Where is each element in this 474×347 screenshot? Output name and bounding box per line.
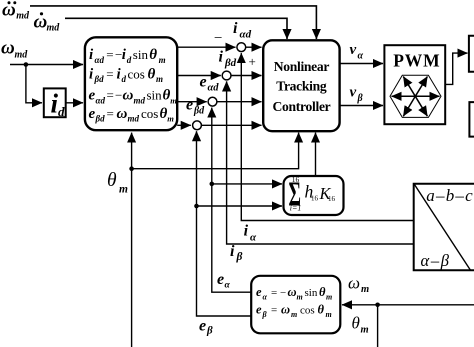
svg-text:β: β	[262, 310, 268, 319]
svg-text:θ: θ	[148, 66, 156, 82]
label i_ad above junction 1	[233, 20, 252, 40]
svg-text:=: =	[106, 66, 113, 81]
svg-text:βd: βd	[95, 114, 106, 124]
label theta_m bottom	[352, 313, 369, 335]
node junction omega-md	[24, 62, 29, 67]
svg-text:θ: θ	[163, 88, 171, 104]
node junction theta_m	[129, 166, 134, 171]
svg-text:d: d	[58, 104, 65, 119]
wire theta_m to controller bottom	[132, 133, 299, 169]
svg-text:v: v	[350, 42, 357, 58]
block right-top (cut)	[469, 36, 474, 72]
summing junction 3	[208, 97, 217, 106]
eq e_beta = omega_m cos theta_m	[256, 303, 332, 319]
svg-text:=: =	[271, 305, 277, 317]
svg-text:m: m	[297, 292, 303, 301]
svg-text:ω: ω	[123, 88, 134, 104]
svg-text:ω: ω	[117, 106, 128, 122]
block PWM	[384, 45, 445, 124]
wire theta_m bottom vertical	[377, 305, 379, 347]
summing junction 4	[193, 121, 202, 130]
svg-text:v: v	[350, 85, 357, 101]
svg-text:ω: ω	[288, 285, 297, 299]
eq row1 i_ad = -i_d sin theta_m	[89, 47, 166, 65]
svg-text:sin: sin	[133, 47, 149, 62]
svg-text:e: e	[217, 271, 224, 288]
node junction e_alpha tap	[210, 182, 215, 187]
svg-text:=: =	[106, 47, 113, 62]
svg-text:m: m	[170, 95, 177, 105]
svg-text:e: e	[186, 97, 193, 114]
svg-text:= −: = −	[271, 287, 286, 299]
label i_alpha	[244, 223, 257, 244]
label omega_m	[348, 274, 369, 296]
wire row4 to summing junction 4	[177, 124, 191, 126]
label v_beta	[350, 85, 364, 105]
svg-text:α: α	[250, 231, 257, 243]
svg-text:m: m	[156, 74, 163, 84]
wire row2 to summing junction 2	[177, 75, 221, 77]
svg-text:βd: βd	[193, 106, 205, 117]
svg-text:m: m	[361, 324, 369, 335]
wire row1 to summing junction 1	[177, 46, 235, 48]
svg-text:16: 16	[311, 195, 319, 203]
node junction e_beta tap	[194, 204, 199, 209]
svg-text:e: e	[256, 285, 262, 299]
svg-text:Controller: Controller	[273, 99, 331, 114]
svg-text:i: i	[219, 49, 224, 66]
svg-text:e: e	[200, 74, 207, 91]
svg-text:β: β	[206, 324, 213, 336]
svg-text:i: i	[233, 20, 238, 37]
wire sum block output to controller bottom	[315, 133, 317, 176]
svg-text:αd: αd	[95, 55, 105, 65]
svg-text:Nonlinear: Nonlinear	[274, 59, 330, 74]
svg-text:d: d	[122, 74, 127, 84]
svg-text:i=1: i=1	[290, 204, 302, 213]
wire junction2 to controller	[231, 75, 262, 77]
svg-text:e: e	[89, 106, 96, 122]
hexagon space vector	[390, 75, 441, 117]
wire junction4 to controller	[201, 124, 261, 126]
svg-text:θ: θ	[319, 285, 326, 299]
eq e_alpha = -omega_m sin theta_m	[256, 285, 332, 301]
svg-text:d: d	[127, 55, 132, 65]
wire omega-md into equation block	[10, 64, 83, 66]
svg-text:θ: θ	[160, 106, 168, 122]
wire junction1 to controller	[246, 46, 262, 48]
svg-text:−: −	[214, 31, 222, 47]
svg-text:ω: ω	[1, 38, 15, 59]
wire omega-d-md to controller top	[65, 18, 287, 39]
diagonal	[414, 184, 470, 270]
label e_alpha	[217, 271, 231, 290]
svg-text:α–β: α–β	[421, 251, 451, 270]
svg-text:i: i	[89, 47, 94, 63]
svg-text:m: m	[119, 184, 128, 196]
wire feedback e_alpha vertical to junction3	[212, 108, 251, 293]
label e_ad above junction 3	[200, 74, 220, 94]
wire feedback e_beta vertical to junction4	[197, 131, 252, 316]
svg-text:αd: αd	[208, 83, 220, 94]
svg-text:βd: βd	[224, 57, 237, 69]
wire theta_m vertical into equation block	[131, 133, 133, 347]
svg-text:+: +	[249, 54, 256, 69]
eq row4 e_bd = omega_md cos theta_m	[89, 106, 175, 124]
svg-text:=: =	[107, 106, 114, 121]
svg-text:θ: θ	[352, 313, 360, 332]
svg-text:α: α	[358, 51, 364, 62]
wire i_d to equation block	[66, 102, 83, 104]
svg-text:m: m	[326, 310, 332, 319]
wire junction3 to controller	[217, 101, 262, 103]
label i_bd above junction 2	[219, 49, 237, 69]
svg-text:md: md	[134, 95, 146, 105]
svg-text:i: i	[230, 243, 235, 260]
svg-text:ω: ω	[281, 303, 290, 317]
wire e_beta tap to sum block	[197, 205, 283, 207]
svg-text:16: 16	[328, 195, 336, 203]
label omega-d-md (desired speed deriv)	[34, 11, 61, 33]
svg-text:PWM: PWM	[393, 50, 440, 70]
svg-text:m: m	[326, 292, 332, 301]
block e-equations	[251, 276, 340, 334]
svg-text:αd: αd	[240, 28, 252, 40]
svg-text:β: β	[357, 93, 364, 104]
svg-text:m: m	[291, 310, 297, 319]
wire feedback i_beta vertical to junction2	[227, 81, 414, 244]
svg-text:m: m	[167, 114, 174, 124]
block equation (desired signals)	[85, 37, 177, 130]
svg-text:e: e	[256, 303, 262, 317]
svg-text:β: β	[236, 251, 243, 263]
svg-text:=: =	[107, 88, 114, 103]
wire v_alpha controller to PWM	[340, 63, 383, 65]
svg-text:α: α	[263, 292, 268, 301]
svg-text:θ: θ	[149, 47, 157, 63]
hexagon arrows	[392, 77, 440, 117]
svg-text:md: md	[15, 49, 29, 60]
summing junction 2	[222, 71, 231, 80]
block sum h16K16	[284, 175, 344, 215]
svg-text:m: m	[159, 55, 166, 65]
wire row3 to summing junction 3	[177, 101, 207, 103]
svg-text:md: md	[16, 10, 30, 21]
svg-text:sin: sin	[147, 88, 163, 103]
svg-text:e: e	[199, 317, 206, 334]
wire omega_m into e-block	[342, 304, 474, 306]
node junction theta_m bottom	[375, 303, 380, 308]
svg-text:e: e	[89, 88, 96, 104]
svg-text:md: md	[47, 22, 61, 33]
label omega-dd-md (desired accel)	[2, 0, 30, 21]
label v_alpha	[350, 42, 364, 62]
svg-text:sin: sin	[305, 287, 318, 299]
svg-text:cos: cos	[300, 305, 315, 317]
wire v_beta controller to PWM	[340, 105, 383, 107]
wire e_alpha tap to sum block	[212, 183, 282, 185]
svg-text:αd: αd	[96, 95, 106, 105]
svg-text:−: −	[115, 88, 122, 103]
wire omega-dd-md to controller top	[30, 6, 316, 39]
label e_beta	[199, 317, 213, 336]
svg-text:θ: θ	[318, 303, 325, 317]
summing junction 1	[237, 43, 246, 52]
svg-text:α: α	[225, 280, 231, 290]
svg-text:a–b–c: a–b–c	[426, 186, 474, 205]
svg-text:ω: ω	[348, 274, 360, 293]
eq row3 e_ad = -omega_md sin theta_m	[89, 88, 178, 106]
label e_bd above junction 4	[186, 97, 205, 117]
svg-text:Tracking: Tracking	[276, 79, 327, 94]
wire PWM output to inverter block	[445, 53, 467, 84]
svg-text:m: m	[361, 284, 369, 295]
svg-text:βd: βd	[94, 74, 105, 84]
svg-text:md: md	[128, 114, 140, 124]
wire feedback i_alpha vertical to junction1	[241, 53, 414, 220]
svg-text:i: i	[244, 223, 249, 240]
eq row2 i_bd = i_d cos theta_m	[89, 66, 163, 84]
wire omega-md down to i_d	[26, 65, 42, 103]
label omega-md	[1, 38, 28, 61]
label i_beta	[230, 243, 243, 263]
svg-text:θ: θ	[107, 170, 117, 191]
svg-text:cos: cos	[128, 66, 145, 81]
block nonlinear tracking controller	[263, 40, 339, 131]
label theta_m	[107, 170, 128, 196]
svg-text:cos: cos	[141, 106, 158, 121]
block abc to alpha-beta	[414, 184, 474, 271]
block i_d	[44, 88, 66, 119]
svg-text:i: i	[89, 66, 94, 82]
block right-bottom (cut)	[469, 102, 474, 137]
